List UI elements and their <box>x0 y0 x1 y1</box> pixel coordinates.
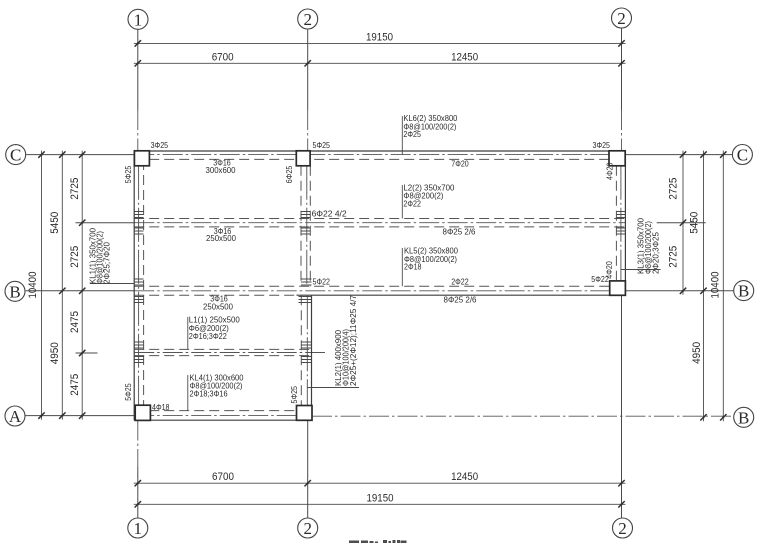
svg-text:10400: 10400 <box>27 272 39 299</box>
beam junction ticks grid2 x mid B-A <box>301 342 311 363</box>
svg-text:A: A <box>9 407 22 426</box>
svg-text:8Φ25 2/6: 8Φ25 2/6 <box>444 295 478 304</box>
axis line grid2R top dashdot <box>621 110 623 151</box>
beam junction ticks grid1 x mid C-B <box>134 212 143 235</box>
dim line 19150 top <box>134 42 626 44</box>
svg-text:5Φ25: 5Φ25 <box>124 383 133 401</box>
svg-text:2725: 2725 <box>69 178 81 200</box>
svg-text:5Φ25: 5Φ25 <box>290 386 299 404</box>
axis line grid1 bottom solid <box>137 467 139 518</box>
svg-text:300x600: 300x600 <box>206 166 237 175</box>
leader L2 <box>401 185 403 219</box>
svg-text:B: B <box>738 282 749 301</box>
beam KL3 along grid 2R (C to B) <box>616 151 625 295</box>
svg-text:3Φ25: 3Φ25 <box>151 141 169 150</box>
axis line B left <box>26 290 135 292</box>
axis line A-B extension right dashdot <box>312 415 734 417</box>
svg-text:2725: 2725 <box>69 246 81 268</box>
svg-text:4950: 4950 <box>49 342 61 364</box>
grid bubble C left <box>6 145 26 165</box>
svg-text:12450: 12450 <box>451 52 478 64</box>
axis line grid2 bottom solid <box>307 420 309 518</box>
svg-text:4Φ18: 4Φ18 <box>152 403 170 412</box>
dim line 5450/4950 left <box>61 151 63 420</box>
dim line segments right <box>682 151 684 295</box>
svg-text:2Φ25: 2Φ25 <box>403 130 421 139</box>
leader L1 <box>187 317 189 349</box>
dim line 10400 right <box>722 151 724 422</box>
svg-text:250x500: 250x500 <box>203 303 234 312</box>
svg-text:19150: 19150 <box>366 32 393 44</box>
svg-text:3Φ25: 3Φ25 <box>593 141 611 150</box>
axis line C left <box>26 154 134 156</box>
column at grid1/C <box>134 151 149 166</box>
beam junction ticks grid1 x B <box>134 279 143 303</box>
beam KL1 along grid 1 <box>134 151 143 420</box>
svg-text:2Φ22: 2Φ22 <box>403 200 421 209</box>
svg-text:B: B <box>738 408 749 427</box>
svg-text:5Φ25: 5Φ25 <box>313 141 331 150</box>
axis line grid2R top solid <box>621 28 623 110</box>
svg-text:8Φ25 2/6: 8Φ25 2/6 <box>443 228 477 237</box>
beam KL5 along grid B <box>134 286 625 295</box>
beam KL2 along grid 2 (B to A) <box>301 295 311 410</box>
svg-text:B: B <box>9 282 20 301</box>
svg-text:2Φ16;3Φ22: 2Φ16;3Φ22 <box>189 332 227 341</box>
svg-text:C: C <box>10 146 21 165</box>
svg-text:250x500: 250x500 <box>206 234 237 243</box>
leader KL2 <box>308 387 360 389</box>
svg-text:2725: 2725 <box>668 178 680 200</box>
beam KL4 along grid A <box>134 411 312 421</box>
svg-text:7Φ20: 7Φ20 <box>451 160 469 169</box>
axis line grid1 bottom dashdot <box>137 421 139 468</box>
column at grid2R/C <box>609 151 625 166</box>
svg-text:1: 1 <box>134 10 143 29</box>
grid bubble B right <box>734 281 754 301</box>
axis line grid2R bottom solid <box>621 295 623 518</box>
grid bubble C right <box>732 145 752 165</box>
svg-text:2475: 2475 <box>69 311 81 333</box>
dim line 6700/12450 bottom <box>134 482 626 484</box>
svg-text:5Φ22: 5Φ22 <box>313 278 331 287</box>
dim line 6700/12450 top <box>134 62 626 64</box>
column at grid2/C <box>296 151 310 166</box>
svg-text:2Φ20;3Φ25: 2Φ20;3Φ25 <box>652 231 661 274</box>
axis line grid1 top solid <box>137 30 139 110</box>
beam KL6 along grid C <box>134 151 625 159</box>
dim line 19150 bottom <box>134 503 626 505</box>
svg-text:4950: 4950 <box>691 342 703 364</box>
svg-text:2: 2 <box>617 9 626 28</box>
svg-text:12450: 12450 <box>451 471 478 483</box>
svg-text:5450: 5450 <box>49 212 61 234</box>
grid bubble 2 bottom <box>298 518 318 538</box>
column at grid2R/B <box>610 281 626 295</box>
grid bubble 2R bottom <box>613 518 633 538</box>
svg-text:2Φ18;3Φ16: 2Φ18;3Φ16 <box>190 390 228 399</box>
axis line grid1 top dashdot <box>137 110 139 151</box>
svg-text:C: C <box>737 146 748 165</box>
grid bubble B left <box>5 281 25 301</box>
axis line C right <box>625 154 732 156</box>
extension line mid B-A left <box>76 352 98 354</box>
axis line A left <box>26 415 135 417</box>
beam along grid 2 upper (C to B) <box>301 166 310 286</box>
svg-text:2: 2 <box>303 10 312 29</box>
beam junction ticks grid2 x mid C-B <box>301 212 310 235</box>
grid bubble 1 bottom <box>128 518 148 538</box>
svg-text:10400: 10400 <box>709 272 721 299</box>
column at grid2/A <box>297 406 313 421</box>
svg-text:4Φ20: 4Φ20 <box>605 261 614 279</box>
leader KL6 <box>401 116 403 154</box>
svg-text:2725: 2725 <box>668 246 680 268</box>
svg-text:2Φ25;7Φ20: 2Φ25;7Φ20 <box>103 241 112 284</box>
grid bubble 2R top <box>612 8 632 28</box>
svg-text:2475: 2475 <box>69 374 81 396</box>
axis line grid2 top solid <box>307 30 309 110</box>
svg-text:6700: 6700 <box>212 52 234 64</box>
beam L1 mid between B and A <box>134 349 325 355</box>
dim line 5450/4950 right <box>703 151 705 422</box>
extension line mid C-B left <box>76 222 135 224</box>
grid bubble B right lower <box>734 407 754 427</box>
grid bubble 1 top <box>128 9 148 29</box>
drawing title (clipped at page bottom) <box>349 540 407 543</box>
grid bubble A left <box>5 406 25 426</box>
beam junction ticks grid2R x mid C-B <box>616 212 625 235</box>
svg-text:2: 2 <box>618 519 627 538</box>
svg-text:2Φ25+(2Φ12);11Φ25 4/7: 2Φ25+(2Φ12);11Φ25 4/7 <box>349 294 358 386</box>
column at grid1/A <box>135 405 150 420</box>
svg-text:4Φ20: 4Φ20 <box>606 162 615 180</box>
grid bubble 2 top <box>298 9 318 29</box>
axis line B right <box>625 290 733 292</box>
beam L2 mid between C and B <box>134 219 625 227</box>
leader KL5 <box>401 248 403 286</box>
svg-text:2: 2 <box>303 519 312 538</box>
leader KL1 <box>90 283 134 285</box>
dim line 10400 left <box>41 151 43 420</box>
svg-text:2Φ18: 2Φ18 <box>404 263 422 272</box>
beam junction ticks grid1 x mid B-A <box>134 342 143 363</box>
leader KL3 <box>621 269 661 271</box>
svg-text:2Φ22: 2Φ22 <box>451 278 469 287</box>
axis line grid2 top dashdot <box>307 110 309 151</box>
svg-text:6700: 6700 <box>212 471 234 483</box>
svg-text:1: 1 <box>134 519 143 538</box>
beam junction ticks grid2 x B <box>299 279 312 303</box>
svg-text:5Φ25: 5Φ25 <box>124 165 133 183</box>
svg-text:5450: 5450 <box>688 212 700 234</box>
dim line segments left <box>81 151 83 420</box>
svg-text:6Φ25: 6Φ25 <box>285 165 294 183</box>
extension line mid C-B right <box>657 222 706 224</box>
leader KL4 <box>187 375 189 411</box>
svg-text:6Φ22 4/2: 6Φ22 4/2 <box>312 209 348 218</box>
svg-text:19150: 19150 <box>367 492 394 504</box>
